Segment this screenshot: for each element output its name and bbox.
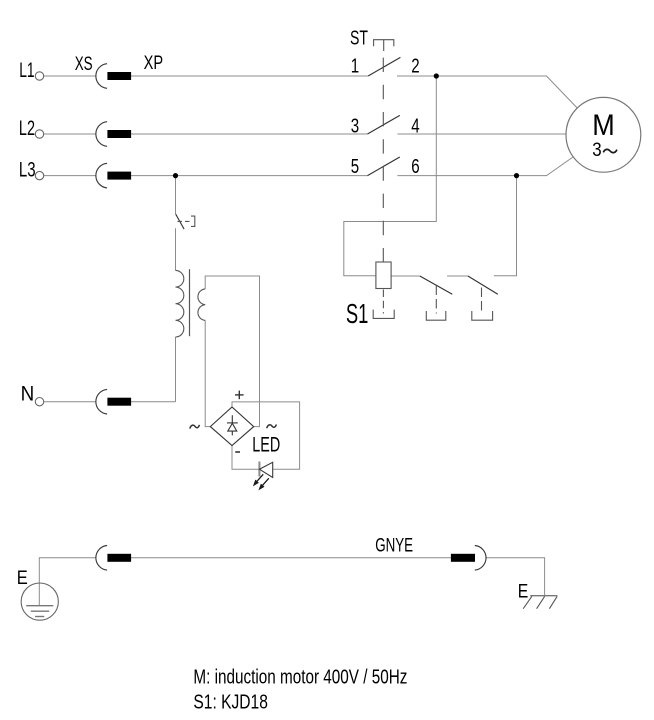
svg-text:M: induction motor 400V / 50Hz: M: induction motor 400V / 50Hz bbox=[193, 667, 407, 689]
svg-text:1: 1 bbox=[351, 56, 359, 78]
svg-text:6: 6 bbox=[411, 156, 419, 178]
svg-text:L1: L1 bbox=[19, 59, 34, 82]
svg-text:E: E bbox=[17, 568, 28, 589]
svg-text:XP: XP bbox=[144, 53, 164, 74]
svg-text:ST: ST bbox=[350, 28, 368, 50]
svg-text:M: M bbox=[592, 109, 615, 142]
svg-text:2: 2 bbox=[411, 56, 419, 78]
svg-text:XS: XS bbox=[75, 54, 93, 75]
svg-text:LED: LED bbox=[252, 433, 280, 456]
svg-text:N: N bbox=[21, 382, 35, 405]
svg-text:L3: L3 bbox=[19, 159, 36, 182]
svg-text:GNYE: GNYE bbox=[375, 535, 413, 556]
svg-text:4: 4 bbox=[411, 115, 419, 137]
svg-text:5: 5 bbox=[351, 156, 359, 178]
svg-text:S1: S1 bbox=[346, 298, 369, 329]
svg-text:3: 3 bbox=[351, 115, 359, 137]
svg-text:E: E bbox=[518, 582, 529, 603]
svg-text:3: 3 bbox=[592, 140, 601, 161]
svg-text:L2: L2 bbox=[19, 117, 35, 140]
svg-text:S1: KJD18: S1: KJD18 bbox=[193, 692, 268, 714]
